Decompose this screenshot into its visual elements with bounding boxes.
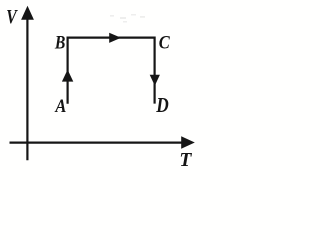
faint print-through smudge (110, 14, 145, 23)
svg-text:V: V (6, 6, 18, 28)
right arrow on B-C segment (109, 33, 121, 43)
down arrow on C-D segment (150, 75, 160, 86)
T axis line (10, 142, 183, 144)
svg-text:T: T (179, 149, 192, 171)
process path B-C rectangle sides (68, 38, 155, 104)
svg-text:D: D (155, 93, 168, 117)
V axis arrowhead (21, 6, 34, 20)
V axis line (26, 14, 28, 160)
svg-text:B: B (54, 32, 65, 53)
svg-text:A: A (55, 96, 67, 117)
svg-text:C: C (159, 32, 170, 53)
up arrow on A-B segment (62, 70, 73, 82)
T axis arrowhead (181, 136, 195, 148)
